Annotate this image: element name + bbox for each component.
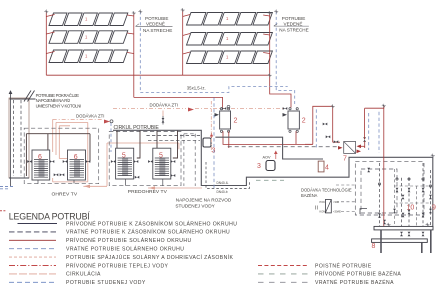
legend row 3 (9, 239, 56, 241)
corner bracket symbol (360, 209, 367, 214)
svg-text:POTRUBIE: POTRUBIE (282, 16, 305, 21)
tank 5 no.1 (116, 148, 134, 179)
left margin cold water stub (0, 187, 14, 189)
legend row 4 (9, 248, 56, 250)
svg-text:DN40-b: DN40-b (217, 190, 228, 194)
junction cross on blue line right (274, 10, 278, 14)
heat exchanger U3 (7) plate (338, 142, 361, 163)
dashed enclosure around tanks 6 (24, 128, 99, 184)
junction cross red riser B (181, 8, 185, 12)
svg-text:DODÁVKA ZTI: DODÁVKA ZTI (76, 114, 104, 119)
blue dashed drops into technology group (369, 112, 379, 153)
svg-text:II: II (315, 206, 318, 212)
tank 5 no.2 (153, 148, 171, 179)
svg-text:POK: POK (320, 200, 326, 204)
leader dashes to TECHNOLOGIE label (336, 184, 355, 186)
svg-text:<30AE: <30AE (333, 210, 341, 214)
svg-text:OHREV TV: OHREV TV (52, 191, 78, 197)
junction circle on zti line (110, 120, 113, 123)
arrow into exchanger U1 (215, 113, 220, 117)
svg-text:VEDENÉ: VEDENÉ (284, 20, 303, 26)
legend row 2 (9, 231, 56, 233)
leader line under VEDENE (left) (136, 24, 173, 27)
heat exchanger U1 (2) (220, 108, 238, 133)
svg-text:DODÁVKA TECHNOLÓGIE: DODÁVKA TECHNOLÓGIE (301, 188, 352, 193)
legend rows right (258, 262, 401, 286)
svg-text:35x1,5-Iz.: 35x1,5-Iz. (187, 86, 206, 91)
pool legs (381, 230, 431, 253)
pool top deck (374, 226, 433, 230)
tank bottom stubs (38, 179, 163, 186)
dark supply pipes to tanks 5 (117, 130, 178, 158)
dashed column near pump (184, 134, 195, 186)
tank 6 no.2 (68, 150, 86, 180)
valve on hot water line 1 (222, 105, 230, 110)
salmon arrow under tanks 1 (84, 185, 90, 189)
svg-text:KOM: KOM (320, 210, 326, 214)
red pipes below exchangers (212, 131, 313, 148)
svg-text:NA STRECHE: NA STRECHE (279, 28, 308, 33)
svg-text:DODÁVKA ZTI: DODÁVKA ZTI (150, 102, 178, 107)
arrow into shaft (9, 91, 12, 187)
svg-text:VRATNÉ POTRUBIE BAZÉNA: VRATNÉ POTRUBIE BAZÉNA (315, 279, 394, 286)
legend row 6 (9, 265, 56, 267)
svg-text:NA STRECHE: NA STRECHE (143, 28, 172, 33)
svg-text:VEDENÉ: VEDENÉ (146, 20, 165, 26)
red loop around safety group (305, 106, 340, 144)
svg-text:POISTNÉ POTRUBIE: POISTNÉ POTRUBIE (315, 262, 372, 269)
pump P2 AOV (3) (257, 151, 278, 171)
junction cross top of pool feed (382, 104, 386, 108)
pump P1 (3) (203, 138, 216, 155)
label DODAVKA TECHNOLOGIE BAZENA (301, 188, 352, 199)
junction cross red riser B2 (268, 11, 272, 15)
legend rows left (9, 220, 237, 286)
legend row 7 (9, 273, 56, 275)
blue cold feed to predohrev tanks (110, 123, 112, 152)
dashed return pool pipe (206, 162, 249, 189)
arrow into exchanger U2 (283, 113, 288, 117)
blue cold water roof line (right) (276, 12, 295, 105)
salmon hot water riser at exchangers (210, 101, 212, 152)
blue cold water roof line (left) (140, 12, 287, 93)
riser shaft box (pipes to boiler room) (9, 98, 29, 178)
red arrow DODAVKA ZTI left (104, 120, 110, 124)
svg-text:PRÍVODNÉ POTRUBIE SOLÁRNEHO OK: PRÍVODNÉ POTRUBIE SOLÁRNEHO OKRUHU (66, 237, 192, 244)
long red pool line (383, 106, 385, 227)
filter symbol II (315, 200, 356, 214)
junction cross red riser A (44, 10, 48, 14)
dark pool supply from exchangers (113, 130, 433, 226)
solar collector array B (middle, 3 rows x 5 panels) (187, 13, 273, 64)
red arrow DODAVKA ZTI middle (188, 108, 194, 112)
junction cross red riser A2 (132, 11, 136, 15)
safety group valves (323, 123, 339, 144)
svg-text:8: 8 (372, 243, 376, 250)
label CIRKUL POTRUBIE (114, 125, 160, 131)
pool lower deck (372, 239, 428, 243)
tank 6 no.1 (32, 150, 50, 180)
collector row labels 1 (array B) (226, 16, 229, 60)
pool dashed drop lines (380, 163, 431, 226)
svg-text:CIRKULÁCIA: CIRKULÁCIA (66, 271, 101, 278)
red roof supply main run (46, 74, 269, 76)
left margin red stub (0, 210, 6, 212)
technology dashed enclosure (355, 162, 424, 215)
red solar return riser (array A right) (127, 13, 134, 97)
salmon arrow under tanks 2 (149, 186, 155, 190)
svg-text:POTRUBIE SPÁJAJÚCE SOLÁRNY A D: POTRUBIE SPÁJAJÚCE SOLÁRNY A DOHRIEVACÍ … (66, 254, 234, 261)
heat exchanger U2 (2) (288, 108, 306, 133)
blue dashed in safety group (315, 109, 317, 147)
collector row labels 1 (array A) (85, 17, 88, 59)
svg-text:3: 3 (212, 148, 216, 155)
junction cross on blue line left (138, 10, 142, 14)
label NAPOJENIE NA ROZVOD STUDENEJ VODY (175, 197, 231, 208)
dashed connectors in valve cluster (395, 169, 431, 226)
svg-text:10: 10 (407, 205, 415, 212)
solar collector array A (left, 3 rows x 5 panels) (49, 13, 128, 63)
pool drop valves (378, 213, 381, 218)
legend row 8 (9, 281, 56, 283)
svg-text:AOV: AOV (263, 155, 271, 159)
legend row 1 (18, 223, 58, 225)
salmon circulation piping (53, 111, 202, 189)
roof text block left: POTRUBIE VEDENE NA STRECHE (143, 16, 172, 33)
red solar supply riser (array B left) (183, 10, 190, 75)
junction cross on red loop (331, 104, 335, 108)
valve on circulation drop (162, 116, 165, 125)
blue cold water drop to exchangers (213, 98, 215, 191)
svg-text:POTRUBIE: POTRUBIE (145, 16, 168, 21)
note text: POTRUBIE POKRACUJE NAPOJENIM NA R/Z UMIESTNENY V KOTOLNI (36, 93, 81, 108)
svg-text:VRATNÉ POTRUBIE K ZÁSOBNÍKOM S: VRATNÉ POTRUBIE K ZÁSOBNÍKOM SOLÁRNEHO O… (66, 229, 230, 236)
expansion cylinder (4) (318, 161, 329, 172)
red downcomer right of array B (270, 75, 291, 107)
dashed enclosure around tanks 5 (109, 132, 181, 186)
red arrow at pump P1 (210, 133, 213, 136)
svg-text:<30B: <30B (333, 200, 339, 204)
valve on exchanger 7 riser (363, 137, 366, 142)
red solar supply riser (array A left) (46, 12, 54, 76)
svg-text:STUDENEJ VODY: STUDENEJ VODY (175, 204, 215, 209)
technology valve cluster (367, 168, 432, 237)
red riser to exchanger 7 (365, 106, 384, 140)
svg-text:UMIESTNENÝ V KOTOLNI: UMIESTNENÝ V KOTOLNI (36, 103, 81, 108)
dashed return pipes step (to pump area) (146, 135, 200, 140)
labels DN40 (217, 181, 229, 194)
svg-text:9: 9 (432, 205, 436, 212)
legend row 11 (258, 281, 308, 283)
junction cross manifold (268, 73, 272, 77)
svg-text:2: 2 (302, 118, 306, 125)
svg-text:PRÍVODNÉ POTRUBIE TEPLEJ VODY: PRÍVODNÉ POTRUBIE TEPLEJ VODY (66, 262, 169, 269)
svg-text:LEGENDA POTRUBÍ: LEGENDA POTRUBÍ (9, 212, 91, 222)
legend row 10 (258, 273, 308, 275)
svg-text:3: 3 (257, 163, 261, 170)
svg-text:DN40-IL: DN40-IL (217, 181, 229, 185)
svg-text:NAPOJENIE NA ROZVOD: NAPOJENIE NA ROZVOD (176, 197, 232, 202)
valve on hot water line 2 (283, 107, 288, 110)
junction crosses on pool deck (387, 223, 391, 227)
tank port valves (27, 160, 175, 179)
svg-text:POTRUBIE STUDENEJ VODY: POTRUBIE STUDENEJ VODY (66, 280, 146, 286)
leader line under VEDENE (right) (274, 24, 309, 27)
svg-text:PRÍVODNÉ POTRUBIE K ZÁSOBNÍKOM: PRÍVODNÉ POTRUBIE K ZÁSOBNÍKOM SOLÁRNEHO… (66, 220, 237, 227)
legend row 9 (258, 265, 308, 267)
svg-text:VRATNÉ POTRUBIE SOLÁRNEHO OKRU: VRATNÉ POTRUBIE SOLÁRNEHO OKRUHU (66, 246, 184, 253)
hot water supply line (dash-dot) (113, 108, 284, 110)
dark supply pipe to tanks 6 (26, 134, 90, 176)
svg-text:4: 4 (325, 165, 329, 172)
roof text block right: POTRUBIE VEDENE NA STRECHE (279, 16, 308, 33)
svg-text:2: 2 (234, 118, 238, 125)
svg-text:7: 7 (343, 156, 347, 163)
svg-text:PREDOHREV TV: PREDOHREV TV (128, 189, 168, 195)
red solar return riser (array B right) (263, 13, 270, 75)
dashed return line to tanks (dark) (228, 146, 337, 148)
red return run from array A to exchanger U1 (134, 97, 223, 107)
svg-text:PRÍVODNÉ POTRUBIE BAZÉNA: PRÍVODNÉ POTRUBIE BAZÉNA (315, 271, 401, 278)
legend row 5 (9, 256, 56, 258)
inner dashed enclosure (361, 169, 397, 213)
teal pool dashes (256, 179, 284, 181)
svg-text:BAZÉNA: BAZÉNA (301, 193, 318, 198)
hatch break mark // (10, 91, 36, 102)
